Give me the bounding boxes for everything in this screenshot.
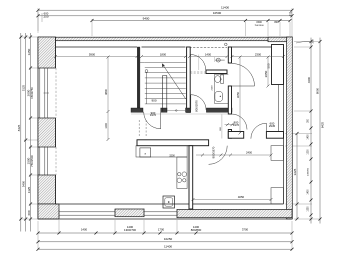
dimension line top 10500 bbox=[38, 15, 292, 17]
svg-text:8425: 8425 bbox=[320, 121, 324, 128]
svg-text:8000: 8000 bbox=[316, 87, 320, 94]
svg-text:800/800: 800/800 bbox=[191, 228, 202, 232]
svg-text:3800: 3800 bbox=[104, 89, 108, 95]
wall corridor south bbox=[137, 140, 209, 146]
svg-text:5125: 5125 bbox=[22, 84, 26, 91]
svg-text:*: * bbox=[144, 152, 146, 157]
toilet bbox=[221, 75, 224, 83]
exterior wall left pier middle bbox=[38, 118, 56, 147]
boiler bbox=[163, 196, 175, 208]
svg-text:4050: 4050 bbox=[238, 195, 245, 199]
extension lines bottom bbox=[37, 221, 39, 250]
wall hall south nib bbox=[131, 108, 143, 112]
dimension line top 9400 bbox=[92, 20, 290, 22]
wall kitchen-living bbox=[189, 146, 193, 209]
svg-text:750/1500: 750/1500 bbox=[254, 25, 264, 27]
svg-text:300: 300 bbox=[289, 15, 292, 17]
svg-text:8425: 8425 bbox=[17, 124, 21, 131]
svg-text:1500/750: 1500/750 bbox=[30, 87, 34, 99]
exterior wall bottom-right section bbox=[177, 210, 292, 218]
wall bathroom south bbox=[206, 108, 232, 112]
svg-text:1970: 1970 bbox=[150, 113, 157, 117]
dimension line top total 11400 bbox=[38, 9, 292, 11]
bathroom sink bbox=[215, 92, 223, 102]
door wc arc bbox=[190, 55, 205, 70]
extension lines left bbox=[20, 36, 40, 38]
svg-text:3650: 3650 bbox=[236, 91, 240, 98]
wall stair hall left bbox=[137, 47, 140, 112]
kitchen counter top run bbox=[136, 146, 187, 157]
bathroom ledge line bbox=[214, 74, 216, 103]
wc hand basin bbox=[216, 58, 220, 62]
svg-text:900: 900 bbox=[151, 99, 156, 103]
svg-text:11400: 11400 bbox=[221, 6, 229, 10]
wall bedroom bottom right segment bbox=[266, 132, 283, 139]
interior dimension left room height bbox=[107, 57, 109, 140]
svg-text:1400: 1400 bbox=[308, 134, 310, 140]
door bathroom leaf and arc bbox=[190, 95, 192, 110]
svg-text:1250: 1250 bbox=[27, 48, 31, 55]
svg-text:1125: 1125 bbox=[27, 186, 31, 193]
exterior wall top inner face bbox=[56, 46, 138, 48]
kitchen counter right run bbox=[177, 157, 187, 189]
door hall to left room bbox=[160, 112, 162, 129]
door bedroom south leaf and arc bbox=[265, 123, 267, 139]
svg-text:800/1970: 800/1970 bbox=[194, 100, 198, 112]
wall bathroom-bedroom lower bbox=[228, 130, 231, 139]
svg-text:3225: 3225 bbox=[293, 168, 297, 175]
interior dimension living width 2400 bbox=[196, 154, 271, 156]
interior dimension bedroom height bbox=[239, 57, 241, 133]
svg-text:1970: 1970 bbox=[233, 123, 240, 127]
extension lines right bbox=[294, 41, 321, 43]
svg-text:2300: 2300 bbox=[255, 52, 262, 56]
dimension lines right margin bbox=[310, 38, 312, 224]
extension line top right bbox=[291, 8, 293, 37]
wall wc bathroom divider bbox=[206, 70, 227, 74]
exterior wall right inner face bbox=[283, 47, 285, 204]
svg-text:1400: 1400 bbox=[308, 189, 310, 195]
wall bathroom-bedroom middle bbox=[228, 86, 231, 114]
window bottom-left glazing bbox=[59, 211, 115, 213]
svg-text:1400: 1400 bbox=[205, 52, 212, 56]
cabinet living east upper bbox=[271, 146, 283, 161]
staircase bbox=[145, 61, 186, 63]
exterior wall bottom-left corner block bbox=[38, 204, 59, 219]
exterior wall right hatched band bbox=[287, 37, 293, 219]
svg-text:1300: 1300 bbox=[308, 149, 310, 155]
exterior wall top hatched band bbox=[38, 37, 292, 41]
cabinet living east lower bbox=[271, 188, 283, 204]
corridor door extension line bbox=[221, 114, 223, 138]
svg-text:500: 500 bbox=[267, 63, 271, 68]
wall stair hall right bbox=[187, 47, 191, 112]
opening hall corridor threshold bbox=[167, 110, 187, 112]
door living room arc bbox=[209, 146, 228, 165]
exterior wall left pier top corner bbox=[38, 37, 56, 68]
interior dimension line rooms width bbox=[56, 56, 138, 58]
dimension line bottom total 11400 bbox=[38, 248, 292, 250]
svg-text:2400: 2400 bbox=[246, 151, 252, 155]
svg-text:10500: 10500 bbox=[213, 11, 222, 15]
window left upper glazing bbox=[44, 68, 46, 118]
dimension line bottom segments bbox=[38, 232, 292, 234]
exterior wall left pier bottom bbox=[38, 175, 56, 204]
chimney circle top wall bbox=[225, 43, 228, 46]
svg-text:4300: 4300 bbox=[307, 76, 311, 83]
interior dimension living width 4050 bbox=[193, 199, 271, 201]
exterior wall bottom inner face bbox=[56, 203, 284, 205]
left wall window reveal dashed bbox=[55, 68, 57, 118]
interior dimension bedroom 2050 bbox=[267, 57, 269, 86]
svg-text:250: 250 bbox=[43, 14, 48, 18]
svg-text:1700: 1700 bbox=[158, 227, 165, 231]
svg-text:375: 375 bbox=[312, 39, 315, 44]
svg-text:11400: 11400 bbox=[164, 245, 172, 249]
window left lower glazing bbox=[44, 147, 46, 175]
wall bathroom-bedroom upper bbox=[228, 47, 231, 63]
opening dashes left room east bbox=[138, 120, 140, 138]
wall hall south middle segment bbox=[161, 108, 167, 112]
exterior wall top-right corner block bbox=[268, 37, 292, 42]
svg-text:3200: 3200 bbox=[169, 154, 175, 157]
svg-text:1300/700: 1300/700 bbox=[124, 228, 136, 232]
svg-text:5400: 5400 bbox=[22, 180, 26, 187]
dimension line right inner bbox=[296, 134, 298, 220]
exterior wall bottom outer edge bbox=[38, 218, 292, 220]
door bedroom west leaf and arc bbox=[232, 85, 255, 87]
svg-text:900/1970: 900/1970 bbox=[212, 146, 216, 158]
svg-text:1800: 1800 bbox=[160, 52, 167, 56]
svg-text:750/1500: 750/1500 bbox=[30, 155, 34, 167]
chimney block bedroom corner bbox=[272, 45, 284, 85]
wall bedroom bottom left segment bbox=[228, 132, 243, 139]
svg-text:9400: 9400 bbox=[143, 16, 150, 20]
svg-text:2945: 2945 bbox=[269, 124, 276, 128]
dimension leader 375 top right bbox=[296, 42, 304, 44]
svg-text:1400: 1400 bbox=[81, 227, 88, 231]
door corridor-bedroom arc bbox=[232, 114, 248, 130]
exterior wall left outer face bbox=[37, 37, 39, 219]
kitchen stove bbox=[178, 173, 181, 176]
svg-text:2050: 2050 bbox=[264, 70, 268, 77]
kitchen sink box bbox=[140, 148, 151, 157]
left wall inner face line bbox=[55, 37, 57, 68]
svg-text:1350: 1350 bbox=[308, 206, 310, 212]
svg-text:1200: 1200 bbox=[105, 123, 108, 129]
svg-text:3700: 3700 bbox=[242, 227, 249, 231]
exterior wall bottom pier bbox=[115, 209, 144, 217]
dimension line bottom 10250 bbox=[38, 241, 292, 243]
window bottom-kitchen glazing bbox=[144, 211, 177, 213]
svg-text:1300/05: 1300/05 bbox=[308, 167, 310, 176]
svg-text:2100: 2100 bbox=[211, 85, 213, 91]
svg-text:1500: 1500 bbox=[256, 21, 262, 24]
svg-text:5900: 5900 bbox=[89, 52, 96, 56]
svg-text:800: 800 bbox=[274, 21, 279, 24]
svg-text:600: 600 bbox=[27, 210, 31, 215]
svg-text:10250: 10250 bbox=[164, 237, 173, 241]
dimension lines left margin bbox=[20, 33, 22, 232]
